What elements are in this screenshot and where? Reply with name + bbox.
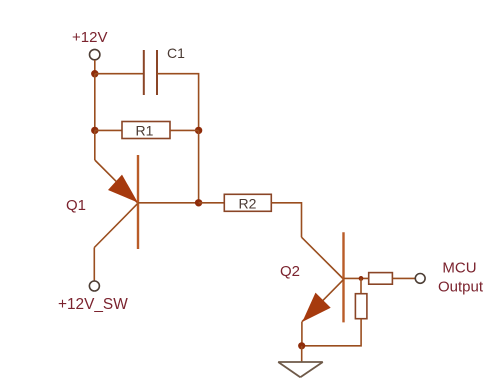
junction node ground bbox=[298, 342, 305, 349]
wire stub down to pulldown resistor bbox=[360, 278, 362, 293]
svg-text:R2: R2 bbox=[239, 195, 257, 211]
svg-text:+12V_SW: +12V_SW bbox=[58, 296, 128, 313]
transistor Q1 bbox=[94, 155, 198, 249]
svg-text:C1: C1 bbox=[167, 45, 185, 61]
wire R2 left lead bbox=[199, 202, 225, 204]
wire series resistor to output terminal bbox=[392, 277, 415, 279]
junction node at +12V rail top bbox=[91, 70, 98, 77]
capacitor C1 bbox=[144, 45, 185, 95]
resistor (series output) bbox=[369, 273, 393, 285]
wire Q2 emitter down to ground junction bbox=[301, 322, 303, 346]
wire left rail from R1 junction down to Q1 emitter bend bbox=[94, 130, 96, 160]
wire right rail from R1 junction down to base junction bbox=[198, 130, 200, 202]
wire terminal to junction bbox=[94, 60, 96, 74]
svg-text:Output: Output bbox=[438, 278, 484, 295]
wire R1 right lead bbox=[170, 129, 199, 131]
junction node collector / pulldown bbox=[359, 276, 364, 281]
wire R2 right lead down to Q2 base bend bbox=[271, 203, 301, 237]
wire junction to C1 left plate bbox=[95, 73, 144, 75]
wire left rail from top junction down to R1 junction bbox=[94, 74, 96, 131]
ground bbox=[278, 362, 323, 377]
wire R1 left lead bbox=[95, 129, 122, 131]
terminal +12V bbox=[90, 49, 100, 59]
transistor Q2 bbox=[302, 232, 369, 322]
wire junction to ground symbol bbox=[301, 346, 303, 362]
resistor (pulldown) bbox=[355, 294, 367, 319]
wire C1 right plate to right rail corner bbox=[157, 74, 199, 131]
resistor R2 bbox=[224, 194, 271, 211]
svg-text:+12V: +12V bbox=[72, 29, 107, 46]
svg-text:R1: R1 bbox=[136, 123, 154, 139]
wire Q2 base diagonal lead bbox=[302, 237, 344, 279]
junction node R1 right bbox=[195, 127, 202, 134]
terminal MCU Output bbox=[415, 274, 425, 284]
svg-text:Q2: Q2 bbox=[280, 263, 300, 280]
wire Q1 emitter diagonal lead bbox=[95, 160, 138, 203]
wire Q1 collector down to +12V_SW terminal bbox=[93, 248, 95, 282]
net label MCU Output bbox=[438, 260, 484, 296]
junction node Q1 base / R2 bbox=[195, 199, 202, 206]
wire pulldown bottom to ground run bbox=[302, 319, 361, 346]
svg-text:Q1: Q1 bbox=[66, 197, 86, 214]
resistor R1 bbox=[122, 122, 170, 139]
junction node R1 left bbox=[91, 127, 98, 134]
terminal +12V_SW bbox=[89, 281, 99, 291]
svg-text:MCU: MCU bbox=[442, 260, 476, 277]
